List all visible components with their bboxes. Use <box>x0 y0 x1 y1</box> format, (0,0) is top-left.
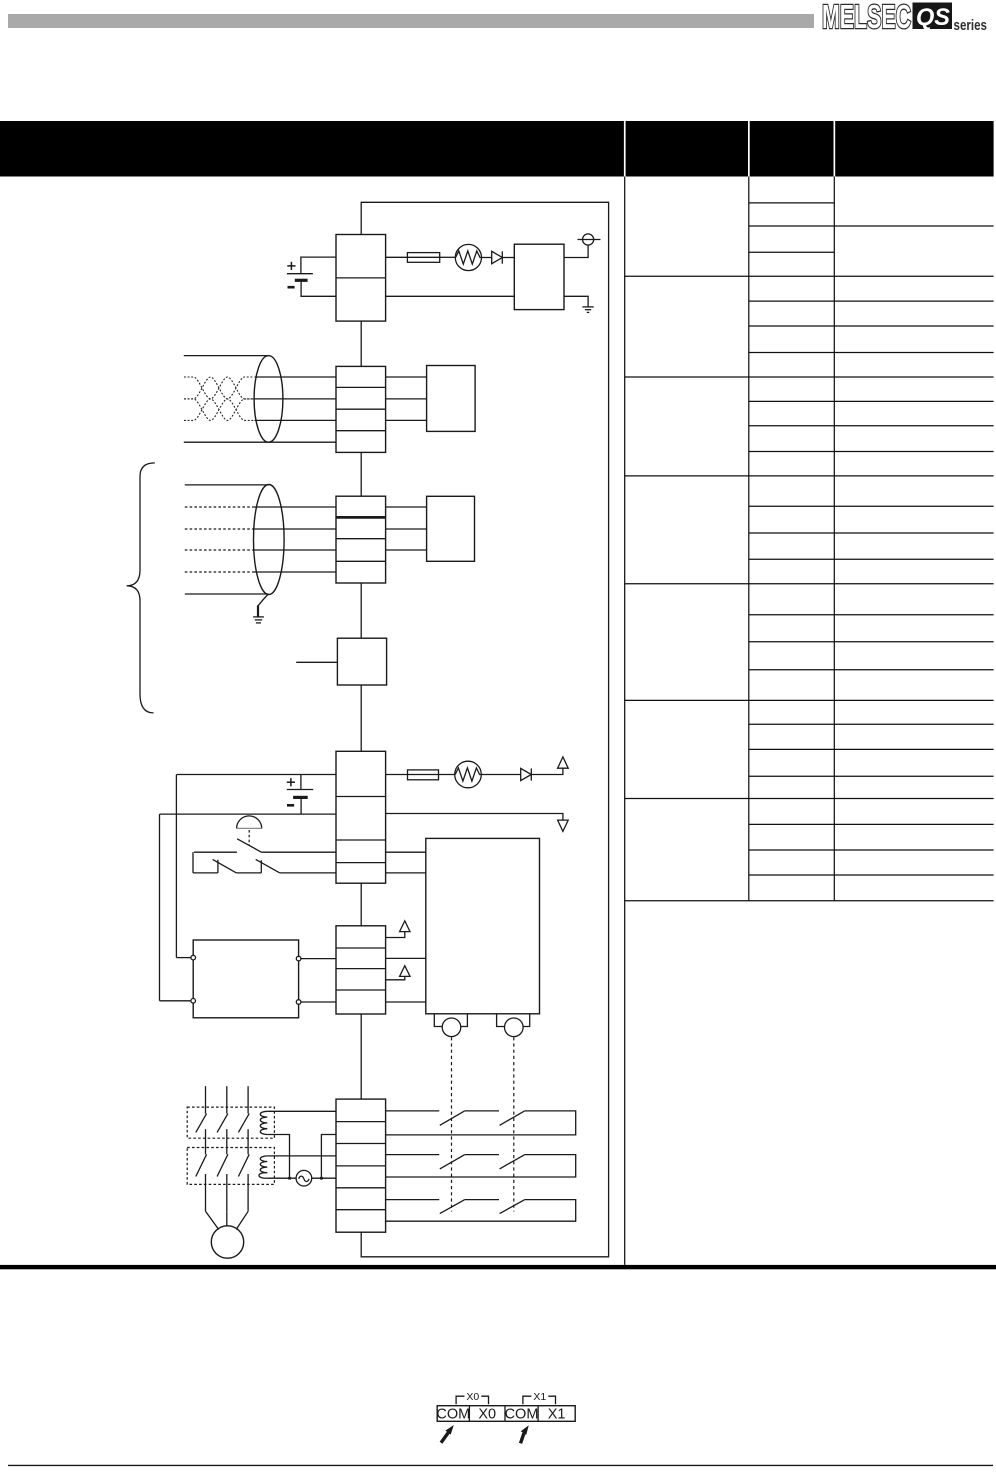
svg-text:COM: COM <box>436 1406 470 1422</box>
interface box U3 <box>427 496 475 561</box>
svg-text:QS: QS <box>916 4 950 31</box>
wire diode to marker <box>531 769 563 775</box>
battery B1 plus wire <box>301 257 336 274</box>
TB5 cell1 wire and marker <box>386 932 405 938</box>
TB6 cell2 wire <box>321 1135 336 1179</box>
QS black box <box>913 3 953 30</box>
arrow 2 <box>521 1433 525 1443</box>
contact loop 1 <box>386 1111 576 1135</box>
marker triangle up T2 <box>400 966 410 977</box>
actuator dashed link 2 <box>513 1037 515 1211</box>
internal bus wire segments <box>360 321 362 1099</box>
PS terminal dots <box>191 955 196 960</box>
terminal labels <box>436 1406 565 1422</box>
terminal block TB1 (power input) <box>336 235 386 322</box>
left curly brace <box>127 463 155 713</box>
horn actuator dashed link <box>248 830 250 845</box>
svg-text:series: series <box>954 17 988 34</box>
terminator box U4 <box>337 638 386 685</box>
X1 bracket <box>523 1396 531 1404</box>
contact loop 2 <box>386 1155 576 1177</box>
battery B2 plus wire <box>176 774 336 776</box>
relay unit box U5 <box>426 838 540 1013</box>
AC source wire <box>267 1177 296 1179</box>
diode D1 <box>492 251 503 263</box>
connection marker triangle up <box>558 757 569 768</box>
svg-text:X0: X0 <box>466 1391 479 1403</box>
svg-text:X1: X1 <box>548 1406 566 1422</box>
cable1 twisted pair band2 wire A <box>184 399 254 421</box>
U4 stub wire <box>296 661 337 663</box>
marker triangle up T1 <box>400 921 410 932</box>
horn dome <box>237 816 262 829</box>
diode D2 <box>521 768 532 780</box>
left feed vertical B <box>159 814 161 1001</box>
table sub rows columns 2-3 <box>749 225 994 227</box>
relay socket 1 <box>434 1014 467 1027</box>
switch left link vertical <box>192 852 194 873</box>
wire lamp to diode <box>482 257 492 259</box>
cable1 wire 2 to TB2 <box>254 398 336 400</box>
svg-text:X1: X1 <box>533 1391 546 1403</box>
interface box U2 <box>427 366 476 432</box>
cable2 sheath top line <box>185 484 269 486</box>
battery B2 minus wire <box>300 797 302 814</box>
external power supply box PS <box>193 940 298 1018</box>
header gray bar <box>8 14 814 28</box>
cable2 shield drain <box>258 594 268 606</box>
switch S2 NC contact a <box>193 872 218 874</box>
coil MC1 top wire to TB6 cell1 <box>267 1110 336 1112</box>
thick section rule <box>0 1265 996 1269</box>
table grid <box>625 177 994 1265</box>
wire U1 to ground <box>564 296 588 307</box>
switch S2 NC contact b <box>236 872 261 874</box>
bottom page rule <box>8 1464 993 1466</box>
contactor MC1 dashed box <box>187 1107 274 1138</box>
ground symbol G1 <box>582 306 593 308</box>
coil MC1 bottom wire <box>267 1135 289 1179</box>
cable1 sheath ellipse <box>254 356 283 443</box>
junction dot 1 <box>288 1177 291 1180</box>
fuse F2 <box>408 770 439 780</box>
wire lamp to diode D2 <box>481 774 520 776</box>
cable2 sheath bottom line <box>185 593 268 595</box>
cable2 sheath ellipse <box>253 485 284 595</box>
left feed vertical A <box>175 775 177 958</box>
wire TB1 cell1 to fuse <box>386 256 408 258</box>
power circuit box U1 <box>514 244 564 309</box>
cable1 twisted pair band2 wire B <box>184 399 254 421</box>
actuator dashed link 1 <box>451 1037 453 1211</box>
wire fuse to lamp <box>440 256 456 258</box>
cable2 dotted wire 3 <box>185 549 254 551</box>
PS feed wires <box>176 957 191 959</box>
TB5 cell2 wire to U5 <box>386 957 426 959</box>
connection marker triangle down <box>558 820 569 831</box>
ground symbol G2 <box>253 616 264 618</box>
output terminal circle <box>578 239 601 241</box>
X0 bracket <box>456 1396 464 1404</box>
cable1 wire 1 to TB2 <box>255 376 337 378</box>
battery B1 <box>287 273 313 275</box>
terminal block TB6 (motor control) <box>336 1099 386 1232</box>
AC source <box>296 1170 312 1186</box>
contactor MC2 dashed box <box>187 1148 274 1185</box>
svg-text:X0: X0 <box>478 1406 496 1422</box>
table column line 2 <box>748 177 750 901</box>
header column separators (white) <box>624 121 626 177</box>
terminal block TB2 <box>336 366 386 452</box>
wire TB4 cell1 to fuse F2 <box>386 774 408 776</box>
bottom terminal strip <box>437 1406 575 1422</box>
terminal block TB5 (outputs) <box>336 926 386 1014</box>
cable1 twisted pair band1 wire B <box>184 377 254 399</box>
motor M <box>211 1226 243 1258</box>
cable2 solid wires to TB3 <box>254 506 336 508</box>
cable1 wire 3 to TB2 <box>255 419 337 421</box>
phase line 2 with contacts <box>217 1086 228 1211</box>
svg-text:COM: COM <box>505 1406 539 1422</box>
svg-text:MELSEC: MELSEC <box>822 0 911 35</box>
contactor coil MC1 <box>260 1111 267 1134</box>
cable2 dotted wire 2 <box>185 528 254 530</box>
contactor coil MC2 <box>259 1156 267 1178</box>
phase line 1 with contacts <box>196 1086 207 1211</box>
cable1 shield wire to TB2 cell4 <box>184 441 336 443</box>
phase line 3 with contacts <box>238 1086 249 1211</box>
TB5 cell3 wire and marker <box>386 977 405 980</box>
wires TB4 to relay unit U5 <box>386 851 426 853</box>
arrow 1 <box>441 1433 448 1443</box>
terminal block TB4 (I/O power) <box>336 751 386 883</box>
surge lamp L2 <box>455 761 482 788</box>
fuse F1 <box>407 253 439 263</box>
table sub rows column2 only <box>749 202 835 204</box>
switch S1 contact <box>194 851 237 853</box>
wire TB1 cell2 to U1 <box>386 295 515 297</box>
TB5 cell4 wire to U5 <box>386 1001 426 1003</box>
terminal block TB3 <box>336 496 386 583</box>
wire TB4 cell2 to marker <box>386 814 563 820</box>
motor feed diagonals <box>206 1211 219 1229</box>
table header black bar <box>0 121 994 177</box>
module enclosure box <box>361 202 608 1257</box>
table column line 3 <box>833 177 835 901</box>
wire U1 to output terminal <box>564 245 588 257</box>
wires TB2 to U2 <box>386 376 427 378</box>
cable2 dotted wire 1 <box>185 506 254 508</box>
table block boundary rows <box>625 275 994 277</box>
contact loop 3 <box>386 1200 576 1222</box>
wires TB3 to U3 <box>386 506 427 508</box>
junction dot 2 <box>320 1177 323 1180</box>
surge lamp L1 <box>455 244 481 270</box>
cable2 dotted wire 4 <box>185 571 255 573</box>
battery B1 minus wire <box>301 280 336 296</box>
table column line 1 <box>624 177 626 1265</box>
relay socket 2 <box>497 1014 530 1027</box>
PS output wires to TB5 <box>301 958 336 960</box>
coil MC2 top wire to TB6 cell3 <box>267 1155 336 1157</box>
cable1 sheath top line <box>184 355 269 357</box>
battery B2 <box>287 789 313 791</box>
cable1 twisted pair band1 wire A <box>184 377 254 399</box>
